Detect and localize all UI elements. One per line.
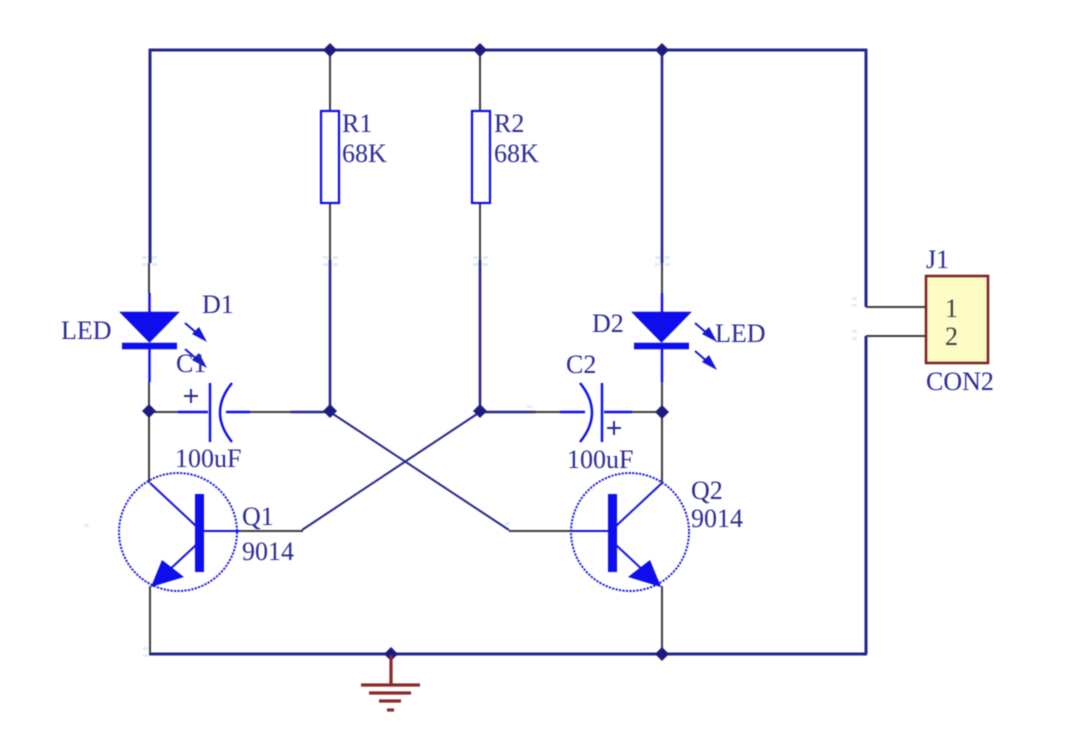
pin D1 anode stub	[148, 263, 150, 293]
wire D2 node down to Q2 collector	[661, 412, 663, 483]
svg-text:R1: R1	[342, 109, 372, 138]
pin C1 right	[248, 411, 292, 413]
pin Q1 base wire	[240, 530, 303, 532]
junction top of R1	[323, 43, 337, 57]
ground symbol	[361, 655, 420, 710]
resistor R2 body	[472, 111, 490, 203]
wire D1 node down to Q1 collector	[148, 412, 150, 483]
pin C1 left	[151, 411, 178, 413]
wire D2 anode from top rail	[661, 50, 664, 263]
svg-text:100uF: 100uF	[175, 444, 241, 473]
svg-text:J1: J1	[926, 245, 949, 274]
svg-text:2: 2	[945, 322, 958, 351]
pin J1 pin2 wire	[866, 335, 926, 337]
LED D1 symbol	[122, 293, 177, 382]
svg-text:C2: C2	[566, 350, 596, 379]
svg-text:Q2: Q2	[691, 476, 723, 505]
svg-text:D1: D1	[202, 290, 234, 319]
svg-text:LED: LED	[61, 316, 112, 345]
pin Q2 base wire	[509, 530, 572, 532]
svg-text:100uF: 100uF	[567, 445, 633, 474]
wire right rail upper segment	[865, 49, 868, 307]
svg-text:LED: LED	[715, 319, 766, 348]
pin Q2 emitter to bottom rail	[661, 586, 663, 654]
pin D2 anode stub	[661, 263, 663, 293]
capacitor C1 (polarized)	[178, 383, 250, 442]
svg-text:9014: 9014	[691, 504, 743, 533]
pin C2 right stub to D2 node	[630, 411, 662, 413]
svg-text:Q1: Q1	[242, 502, 274, 531]
svg-text:C1: C1	[176, 349, 206, 378]
junction top of D2 branch	[655, 43, 669, 57]
pin R2 top	[479, 51, 481, 111]
D2 light arrow 2	[695, 351, 717, 370]
C1 plus sign	[184, 389, 198, 403]
junction top of R2	[473, 43, 487, 57]
capacitor C2 (polarized)	[560, 383, 632, 442]
wire right rail lower segment	[865, 336, 868, 654]
wire R2 bottom to node B	[479, 260, 482, 411]
D1 light arrow 2	[185, 349, 207, 368]
LED D2 symbol	[634, 293, 689, 382]
wire top rail VCC	[149, 49, 867, 52]
D1 light arrow 1	[185, 323, 207, 342]
svg-text:R2: R2	[494, 109, 524, 138]
wire node A to C2 area cross-coupling to Q2 base (diagonal)	[330, 412, 509, 530]
svg-text:68K: 68K	[342, 139, 387, 168]
pin D1 cathode stub to node C1	[148, 382, 150, 412]
pin R1 top	[329, 51, 331, 111]
junction Q2 emitter at bottom rail	[655, 647, 669, 661]
wire node B to C2 left plate	[480, 411, 536, 414]
grid artifact marks	[84, 256, 857, 657]
C2 plus sign	[607, 421, 621, 435]
wire node B cross-coupling to Q1 base (diagonal)	[302, 412, 480, 530]
wire node A to C1 right (navy segment)	[290, 411, 330, 414]
pin R1 bottom	[329, 203, 331, 260]
pin D2 cathode stub	[661, 382, 663, 412]
pin R2 bottom	[479, 203, 481, 260]
connector J1 body	[926, 276, 988, 363]
wire bottom rail GND net	[149, 653, 867, 656]
junction node D2-C2	[655, 405, 669, 419]
D2 light arrow 1	[695, 323, 717, 342]
transistor Q2 (NPN)	[571, 473, 689, 591]
wire left rail upper segment	[149, 49, 152, 263]
pin C2 left	[534, 411, 560, 413]
wire R1 bottom to node A	[329, 260, 332, 411]
pin Q1 emitter to bottom rail	[149, 586, 151, 654]
junction node B (R2/C2/cross)	[473, 404, 487, 418]
pin J1 pin1 wire	[866, 306, 926, 308]
transistor Q1 (NPN, mirrored)	[119, 473, 240, 591]
svg-text:68K: 68K	[494, 139, 539, 168]
svg-text:9014: 9014	[242, 537, 294, 566]
junction ground tap	[384, 647, 398, 661]
svg-text:CON2: CON2	[926, 367, 994, 396]
resistor R1 body	[321, 111, 339, 203]
junction node D1-C1	[142, 404, 156, 418]
junction node A (R1/C1/cross)	[323, 404, 337, 418]
svg-text:D2: D2	[592, 309, 624, 338]
svg-text:1: 1	[945, 294, 958, 323]
